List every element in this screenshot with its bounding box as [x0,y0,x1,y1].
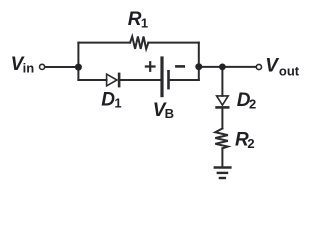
resistor R2 [215,129,228,149]
node junction dot left [75,64,82,71]
node junction dot right rail [195,63,202,70]
wire D2 to R2 [221,109,223,129]
svg-text:D: D [101,89,115,110]
svg-text:1: 1 [114,96,121,111]
wire top rail left segment [78,42,130,44]
wire lower branch to D1 [78,79,106,81]
terminal Vin [40,64,45,69]
svg-text:2: 2 [247,136,254,151]
wire D2 branch down [221,67,223,96]
wire R2 to ground [221,148,223,166]
resistor R1 [130,37,148,49]
wire output to Vout terminal [199,66,256,68]
wire top rail right segment [148,42,199,44]
wire right vertical [198,43,200,80]
ground [215,166,230,169]
svg-text:out: out [279,63,300,78]
node junction dot D2 branch [219,64,226,71]
diode D2 [217,96,229,105]
svg-text:2: 2 [249,96,256,111]
svg-text:V: V [265,56,279,77]
wire Vin to junction [45,66,78,68]
minus sign [176,65,183,68]
svg-text:in: in [23,61,35,76]
terminal Vout [256,64,261,69]
wire left vertical [77,43,79,80]
diode D1 [107,74,117,86]
svg-text:B: B [165,106,174,121]
battery VB plates [160,58,163,96]
svg-text:R: R [128,9,142,30]
svg-text:1: 1 [141,16,148,31]
plus sign [146,62,155,71]
wire D1 to battery [120,79,160,81]
wire battery to right vertical [170,79,199,81]
